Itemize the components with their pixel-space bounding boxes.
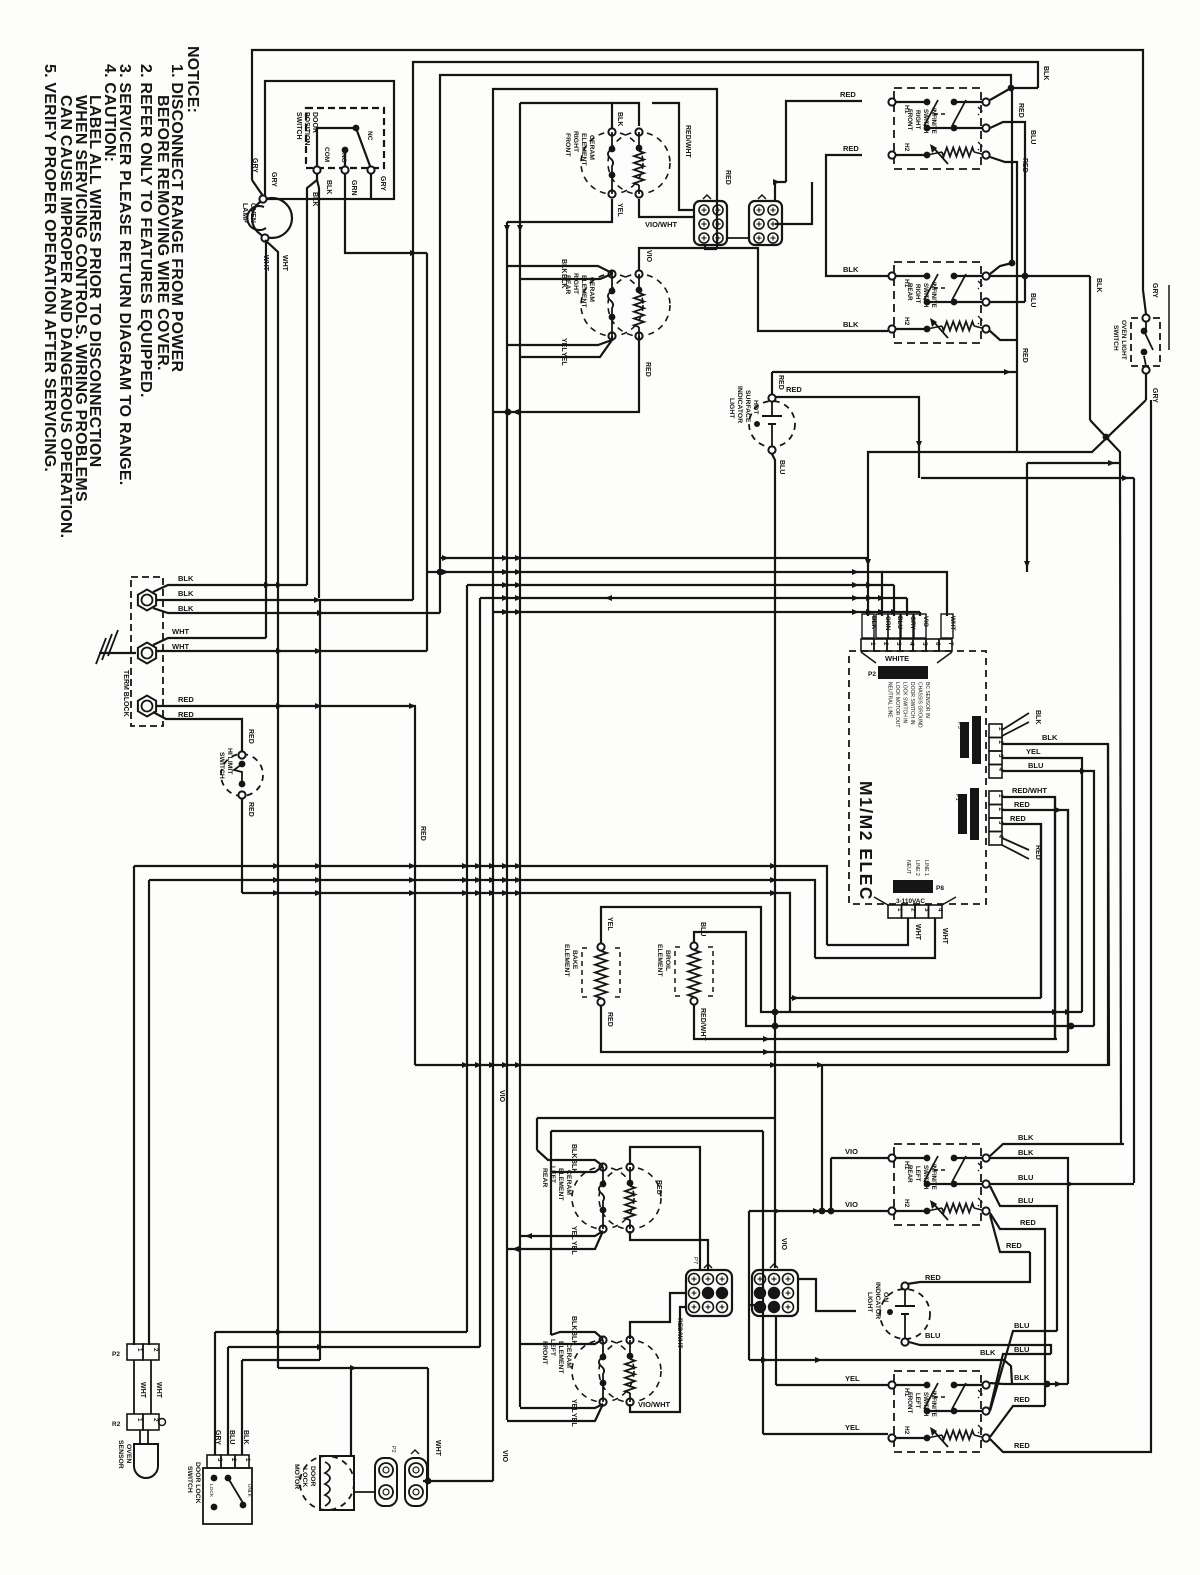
svg-text:BLK: BLK	[1014, 1373, 1030, 1382]
svg-text:REAR: REAR	[906, 283, 913, 301]
svg-text:FRONT: FRONT	[564, 133, 571, 157]
svg-text:R2: R2	[112, 1421, 121, 1428]
connector P2 wire labels	[862, 614, 874, 638]
svg-text:RED/WHT: RED/WHT	[699, 1008, 706, 1041]
wire BLK to L1	[749, 1360, 1012, 1384]
wire blk front	[551, 1332, 603, 1339]
wire mid vertical	[506, 222, 508, 1420]
svg-text:BLU: BLU	[778, 460, 785, 474]
svg-text:SWITCH: SWITCH	[922, 1392, 929, 1417]
wire GRY from frame	[1143, 290, 1146, 314]
wire outer box top	[493, 89, 717, 612]
wire x320 end	[319, 600, 321, 1360]
junction	[1004, 369, 1011, 375]
svg-text:LOCK: LOCK	[301, 1468, 308, 1487]
svg-text:YEL: YEL	[1026, 747, 1041, 756]
svg-text:VIO: VIO	[645, 250, 652, 263]
svg-text:YEL: YEL	[570, 1399, 577, 1413]
junction dots	[772, 1009, 779, 1016]
junction dot	[505, 409, 512, 416]
wire x415 red	[414, 706, 416, 1065]
junction dot	[1009, 260, 1016, 267]
X junction wires	[868, 400, 1146, 558]
limiter dots	[609, 146, 616, 153]
wire bake top	[601, 907, 775, 1012]
door position switch enclosure	[265, 81, 394, 199]
coil	[942, 148, 974, 157]
svg-text:4: 4	[908, 642, 915, 646]
svg-text:BLU: BLU	[925, 1331, 940, 1340]
wire bus y612	[494, 611, 920, 613]
wire outer box left continues	[492, 612, 494, 1065]
wire RED down	[1011, 88, 1013, 263]
svg-text:BLU: BLU	[699, 922, 706, 936]
wire to P2 pin5	[919, 612, 921, 616]
connector motor A	[375, 1458, 397, 1506]
svg-text:WHT: WHT	[949, 616, 956, 631]
node L1	[982, 1154, 989, 1161]
wire RED y396	[776, 397, 919, 478]
switch internals	[211, 1475, 218, 1482]
filament dot	[887, 1309, 893, 1315]
oven lamp	[252, 198, 292, 238]
element terminals	[599, 1163, 606, 1170]
wire RED stub up	[771, 372, 773, 394]
svg-text:GRY: GRY	[379, 176, 386, 191]
wire yel rear 2	[520, 340, 612, 357]
svg-text:BLU: BLU	[1018, 1196, 1033, 1205]
wire row1b	[954, 275, 986, 277]
contact dots row1	[924, 273, 931, 280]
connector R2	[127, 1414, 143, 1430]
wire blk2	[551, 1166, 603, 1172]
wall mark	[1168, 285, 1170, 350]
wire rear L1 out diag	[990, 263, 1012, 274]
junction	[1080, 768, 1087, 774]
wire L1 out	[990, 88, 1038, 100]
svg-text:MOTOR: MOTOR	[293, 1464, 300, 1489]
svg-text:BLK: BLK	[325, 180, 332, 194]
svg-text:FRONT: FRONT	[906, 1392, 913, 1414]
svg-text:BLK: BLK	[1042, 733, 1058, 742]
wire y1039 right	[775, 1038, 1057, 1040]
svg-text:BLK: BLK	[980, 1348, 996, 1357]
svg-text:BLK: BLK	[616, 112, 623, 126]
svg-text:WHT: WHT	[914, 924, 921, 941]
limiter hook	[599, 1357, 604, 1383]
junction	[792, 995, 799, 1001]
svg-text:1: 1	[136, 1418, 143, 1422]
svg-text:2. REFER ONLY TO FEATURES EQUI: 2. REFER ONLY TO FEATURES EQUIPPED.	[137, 64, 154, 398]
wire P5 pin3 YEL	[1002, 758, 1082, 1012]
node H2	[888, 1434, 895, 1441]
connector P2 pin row	[861, 639, 874, 651]
wire row1b	[954, 1384, 986, 1386]
terminal 2	[138, 643, 156, 664]
trapezoid left	[861, 652, 876, 663]
wire to rear H1	[826, 182, 888, 276]
lever1	[924, 1383, 938, 1409]
wire VIO riser	[492, 1065, 494, 1481]
svg-text:RED: RED	[1010, 814, 1026, 823]
connector P10B	[752, 1270, 798, 1316]
svg-text:P1: P1	[954, 794, 960, 801]
svg-text:BLU: BLU	[1014, 1321, 1029, 1330]
X dot	[1103, 434, 1110, 441]
wire row1	[896, 1157, 927, 1159]
wire to P2 pin3	[893, 585, 895, 616]
contact dots row1	[924, 1155, 931, 1162]
svg-text:VIO: VIO	[498, 1090, 505, 1103]
link dash	[934, 1396, 948, 1398]
wire x749 to connector B	[748, 1211, 750, 1360]
breaker	[932, 320, 948, 338]
oven light switch	[1131, 318, 1160, 366]
bracket L1	[978, 281, 982, 289]
svg-text:SWITCH: SWITCH	[186, 1466, 193, 1493]
node H2	[888, 151, 895, 158]
svg-text:INFINITE: INFINITE	[930, 108, 937, 134]
svg-text:WHT: WHT	[434, 1440, 441, 1457]
wire row2	[927, 127, 986, 129]
svg-text:LEFT: LEFT	[914, 1166, 921, 1182]
wire to P2 pin2	[880, 572, 882, 616]
svg-text:RED: RED	[1020, 1218, 1036, 1227]
wire yel front2	[507, 1404, 603, 1421]
contact dot	[1141, 328, 1148, 335]
svg-text:2: 2	[882, 642, 889, 646]
node bottom	[901, 1338, 908, 1345]
wire connector out	[423, 1480, 493, 1482]
wire P1 pin2 RED	[1002, 810, 1068, 1052]
svg-text:FRONT: FRONT	[906, 109, 913, 131]
wire indicator blu	[909, 1342, 1051, 1354]
svg-text:SWITCH: SWITCH	[218, 752, 225, 779]
wire yel front	[520, 1404, 603, 1408]
connector P7A	[694, 201, 727, 245]
wire COM	[317, 128, 353, 166]
svg-text:BAKE: BAKE	[571, 950, 578, 970]
wire front P red	[990, 1406, 1045, 1437]
wire x467 down	[466, 585, 468, 1332]
svg-text:GRY: GRY	[251, 158, 258, 173]
junction	[817, 1062, 824, 1068]
svg-text:GRY: GRY	[909, 616, 916, 630]
wire yel rear-left	[520, 1231, 603, 1236]
wire bake bottom	[601, 1006, 775, 1052]
element coil	[627, 1353, 634, 1360]
wire NO stub	[344, 150, 346, 166]
wire GRY down from switch	[1145, 374, 1147, 400]
wire to H2 front	[826, 155, 862, 182]
svg-text:BLK: BLK	[560, 274, 567, 288]
junction	[442, 555, 449, 561]
contact dot NO	[342, 147, 349, 154]
trapezoid	[874, 897, 888, 905]
junction	[1067, 1181, 1074, 1187]
lever1	[924, 1156, 938, 1182]
arrow marker left	[605, 595, 612, 601]
svg-text:RED: RED	[786, 385, 802, 394]
wire bus y598	[480, 597, 907, 599]
node L2	[982, 298, 989, 305]
svg-text:VIO/WHT: VIO/WHT	[645, 220, 677, 229]
svg-text:RIGHT: RIGHT	[914, 110, 921, 129]
hi limit switch	[221, 754, 263, 796]
junction dot	[828, 1208, 835, 1215]
svg-text:OVEN: OVEN	[125, 1444, 132, 1463]
riser x1068	[1067, 810, 1069, 1052]
wire WHT2	[157, 650, 427, 652]
wire broil top	[694, 932, 775, 1026]
svg-text:RED: RED	[1014, 800, 1030, 809]
wire B23 down to YEL	[775, 1316, 777, 1385]
wire BLK	[307, 174, 317, 585]
node switch bottom	[1142, 366, 1149, 373]
svg-text:3: 3	[216, 1458, 223, 1462]
contact dots row1	[924, 1382, 931, 1389]
X junction cross	[1090, 420, 1120, 463]
contact dot	[1141, 349, 1148, 356]
node L1	[982, 272, 989, 279]
P8 part block	[893, 880, 933, 893]
wire row1	[896, 1384, 927, 1386]
limiter hook	[608, 149, 613, 175]
riser x1041	[1040, 824, 1042, 998]
lever	[1144, 331, 1153, 350]
svg-text:YEL: YEL	[606, 917, 613, 931]
junction	[512, 409, 519, 415]
svg-text:BLK: BLK	[843, 320, 859, 329]
node P	[982, 1434, 989, 1441]
svg-text:WHT: WHT	[139, 1382, 146, 1399]
svg-text:2: 2	[152, 1348, 159, 1352]
svg-text:LIGHT: LIGHT	[728, 398, 735, 419]
limiter hook	[608, 291, 613, 317]
svg-text:5. VERIFY PROPER OPERATION AFT: 5. VERIFY PROPER OPERATION AFTER SERVICI…	[41, 64, 58, 472]
wire P5 pin2 BLK	[1002, 744, 1108, 1066]
wire row2	[927, 301, 986, 303]
wire RED1	[157, 705, 416, 707]
svg-text:BEFORE REMOVING WIRE COVER.: BEFORE REMOVING WIRE COVER.	[154, 95, 171, 371]
wire element top to inner box	[520, 103, 612, 128]
switch lever	[356, 128, 370, 166]
svg-text:SWITCH: SWITCH	[922, 109, 929, 134]
wire rear L2 down	[990, 1186, 1057, 1331]
node P	[982, 1207, 989, 1214]
wire broil bottom	[694, 1005, 775, 1039]
svg-text:BLK: BLK	[178, 574, 194, 583]
node L2	[982, 124, 989, 131]
svg-text:RED: RED	[1014, 1441, 1030, 1450]
link dash	[934, 113, 948, 115]
wire to P2 pin1	[867, 558, 869, 616]
svg-text:LAMP: LAMP	[241, 203, 248, 223]
bracket P	[978, 316, 982, 324]
svg-text:ELEMENT: ELEMENT	[656, 944, 663, 977]
infinite switch RIGHT FRONT	[894, 88, 981, 169]
svg-text:BLK: BLK	[570, 1316, 577, 1330]
lever2	[952, 100, 966, 126]
wire x551 down	[550, 1131, 552, 1335]
riser x1109	[1108, 744, 1109, 1065]
coil	[942, 1204, 974, 1213]
connector P1	[989, 791, 1002, 805]
connector P2 oven sensor	[127, 1344, 143, 1360]
svg-text:BLK: BLK	[1034, 710, 1041, 724]
svg-text:RED: RED	[419, 826, 426, 841]
wire blk front2	[520, 1339, 603, 1344]
svg-text:HI LIMIT: HI LIMIT	[226, 748, 233, 775]
wire front L1 out	[990, 1383, 1068, 1384]
svg-text:VIO: VIO	[922, 616, 929, 627]
wire bus y558	[440, 557, 868, 559]
contact dots row2	[924, 299, 931, 306]
node H1	[888, 1154, 895, 1161]
door lock switch	[203, 1468, 252, 1524]
svg-text:RED: RED	[655, 1180, 662, 1195]
svg-text:RED: RED	[777, 375, 784, 390]
junction	[504, 225, 510, 232]
node P	[982, 151, 989, 158]
svg-text:BLK: BLK	[178, 589, 194, 598]
junction	[1044, 1381, 1051, 1388]
svg-text:M1/M2 ELEC: M1/M2 ELEC	[856, 781, 876, 901]
svg-text:OVEN LIGHT: OVEN LIGHT	[1120, 320, 1127, 360]
wire x1121 down	[1120, 463, 1121, 1144]
wire x427 vertical	[426, 253, 428, 651]
svg-text:SWITCH: SWITCH	[295, 112, 302, 140]
wire bus y585	[467, 584, 894, 586]
wire y1347 BLU	[228, 1346, 480, 1348]
svg-text:4: 4	[937, 908, 944, 912]
limiter dots	[609, 288, 616, 295]
svg-text:CERAM: CERAM	[565, 1170, 572, 1195]
wire row3	[896, 328, 927, 330]
coil	[942, 1431, 974, 1440]
svg-text:BLK: BLK	[1095, 278, 1102, 292]
wire red/wht down to connector	[652, 103, 695, 210]
node top	[768, 394, 775, 401]
wire rear L1 out2	[990, 1158, 1068, 1384]
svg-text:CHASSIS GROUND: CHASSIS GROUND	[917, 682, 923, 728]
wire BLK	[317, 180, 319, 598]
wire L2 out	[990, 122, 1025, 302]
wire conn link	[727, 237, 749, 239]
svg-text:ELEMENT: ELEMENT	[563, 944, 570, 977]
wire element top right	[612, 103, 639, 126]
wire row1b	[954, 101, 986, 103]
svg-text:TERM BLOCK: TERM BLOCK	[122, 670, 129, 717]
wire blk diag	[537, 1150, 603, 1166]
svg-text:RED/WHT: RED/WHT	[1012, 786, 1047, 795]
svg-text:RED: RED	[1021, 158, 1028, 173]
svg-text:ELEMENT: ELEMENT	[580, 133, 587, 166]
svg-text:BLK: BLK	[1042, 66, 1049, 80]
wire y478	[921, 477, 1134, 479]
svg-text:BLK: BLK	[311, 192, 318, 206]
riser x1055	[1054, 797, 1056, 1039]
wire WHT riser	[427, 1368, 429, 1481]
node H1	[888, 1381, 895, 1388]
on indicator light	[880, 1289, 930, 1339]
svg-text:REAR: REAR	[541, 1168, 548, 1187]
bracket P	[978, 1425, 982, 1433]
wire motor bottom	[354, 1491, 376, 1493]
wire bus y866	[134, 866, 827, 945]
link dash	[934, 287, 948, 289]
svg-text:YEL: YEL	[845, 1374, 860, 1383]
connector P7B	[749, 201, 782, 245]
wire BLU down	[227, 1347, 229, 1455]
node L2	[982, 1407, 989, 1414]
svg-text:RED: RED	[1006, 1241, 1022, 1250]
svg-text:INDICATOR: INDICATOR	[874, 1282, 881, 1319]
node L1	[982, 98, 989, 105]
limiter hook	[599, 1184, 604, 1210]
svg-text:1: 1	[244, 1458, 251, 1462]
element terminals	[608, 270, 615, 277]
ceram element LEFT FRONT body	[572, 1340, 634, 1402]
breaker	[932, 146, 948, 164]
svg-text:GRY: GRY	[270, 172, 277, 187]
svg-text:YEL: YEL	[845, 1423, 860, 1432]
wire rear L2 out	[990, 1183, 1134, 1185]
svg-text:SWITCH: SWITCH	[922, 1165, 929, 1190]
limiter dots	[600, 1181, 607, 1188]
junction	[916, 441, 922, 448]
wire row2	[927, 1183, 986, 1185]
wire ceram-left outer top	[537, 1117, 776, 1119]
wire YEL to front H2	[763, 1433, 888, 1435]
svg-text:3: 3	[895, 642, 902, 646]
svg-text:LEFT: LEFT	[549, 1339, 556, 1357]
svg-text:H2: H2	[903, 317, 910, 326]
connector P10A	[686, 1270, 732, 1316]
connector P5	[989, 724, 1002, 738]
svg-text:H2: H2	[903, 1199, 910, 1208]
svg-text:LOCK SWITCH IN: LOCK SWITCH IN	[902, 682, 908, 724]
svg-text:H2: H2	[903, 143, 910, 152]
svg-text:NOTICE:: NOTICE:	[184, 46, 201, 113]
svg-text:CERAM: CERAM	[588, 135, 595, 160]
svg-text:RED: RED	[1014, 1395, 1030, 1404]
wire bus y880	[149, 880, 815, 958]
svg-text:DOOR: DOOR	[311, 112, 318, 133]
wire RED2 to hi-limit	[153, 712, 242, 755]
lamp symbol	[762, 415, 782, 417]
wire element rear top	[611, 270, 613, 274]
broil element	[690, 942, 697, 949]
element terminals	[608, 128, 615, 135]
svg-text:SWITCH: SWITCH	[1112, 325, 1119, 351]
svg-text:WHT: WHT	[172, 642, 189, 651]
svg-text:REAR: REAR	[906, 1165, 913, 1183]
wire row3	[896, 1210, 927, 1212]
svg-text:RED: RED	[178, 710, 194, 719]
svg-text:DOOR LOCK: DOOR LOCK	[194, 1462, 201, 1504]
wire top frame second	[413, 62, 1038, 600]
infinite switch RIGHT REAR	[894, 262, 981, 343]
wire top frame outer	[252, 50, 1143, 290]
wire y1360 BLK	[242, 1359, 320, 1361]
svg-text:NEUT: NEUT	[905, 860, 911, 875]
svg-text:SENSOR: SENSOR	[117, 1440, 124, 1469]
svg-text:RED: RED	[1021, 348, 1028, 363]
junction	[774, 1208, 781, 1214]
svg-text:INFINITE: INFINITE	[930, 1164, 937, 1190]
svg-text:RED/WHT: RED/WHT	[684, 125, 691, 158]
